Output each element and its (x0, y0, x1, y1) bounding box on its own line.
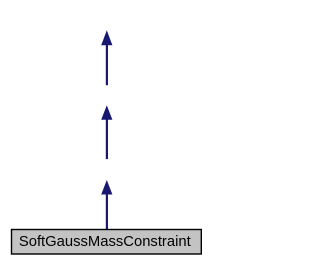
inheritance arrow 3 (bottom, from SoftGaussMassConstraint) (101, 180, 112, 230)
svg-text:SoftGaussMassConstraint: SoftGaussMassConstraint (19, 234, 191, 250)
inheritance arrow 2 (middle) (101, 105, 112, 159)
inheritance arrow 1 (top, points up to hidden base class) (101, 30, 112, 85)
node SoftGaussMassConstraint (current class box) (12, 230, 202, 255)
